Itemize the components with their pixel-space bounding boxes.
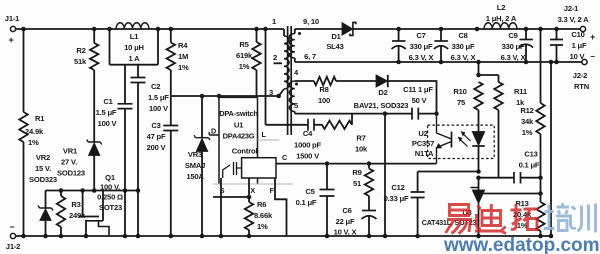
svg-text:1%: 1% [28,138,39,147]
svg-text:24.9k: 24.9k [25,127,44,136]
node U1 corner [217,94,222,99]
svg-text:DPA-switch: DPA-switch [219,109,258,118]
svg-text:15 V.: 15 V. [35,164,51,173]
node VR3 top [200,94,205,99]
wire filter branch right [157,29,159,65]
wire R10 R11 bridge [479,74,499,76]
svg-text:1500 V: 1500 V [296,152,320,161]
wire R2 to VR1 [93,70,95,142]
wire pin2 stub [274,62,282,64]
node R10 top [476,73,481,78]
svg-text:L1: L1 [130,32,139,41]
svg-text:330 μF: 330 μF [410,42,433,51]
transformer bias winding 4-5 [289,81,294,111]
node bias return branch [383,111,388,116]
node C7 top [396,27,401,32]
svg-text:200 V: 200 V [147,143,167,152]
svg-text:1%: 1% [522,128,533,137]
wire gate node [46,190,139,192]
node U3 anode on rail [476,234,481,239]
svg-text:C: C [282,153,287,162]
svg-text:R1: R1 [35,114,45,123]
transformer primary winding 1-2-3 [284,36,289,89]
svg-text:5: 5 [294,101,299,110]
resistor R13 [536,202,544,231]
svg-text:100: 100 [318,96,330,105]
svg-text:J2-2: J2-2 [573,71,587,80]
watermark char xun [571,204,596,233]
wire R7 to bias return [351,114,353,125]
node R5 top on rail [254,27,259,32]
svg-text:4: 4 [294,68,299,77]
wire R4 bottom to node D wire [170,70,172,96]
node C9 top [524,27,529,32]
node C12 bottom on rail [415,234,420,239]
svg-text:SL43: SL43 [326,42,343,51]
resistor R12 [536,103,544,134]
svg-text:C9: C9 [508,31,517,40]
op-amp U2 PC357 dashed box [428,125,495,158]
resistor R7 [322,121,352,129]
svg-text:2: 2 [273,53,277,62]
terminal J2-1 [580,26,585,31]
node R1 bottom on rail [21,234,26,239]
diode D2 [376,75,388,87]
svg-text:R4: R4 [178,41,188,50]
U1 control block box [242,158,276,178]
watermark char pei [544,205,555,229]
wire Q1 drain lead [102,191,104,221]
node X R6 junction [247,195,252,200]
inductor L1 [116,23,149,29]
wire snubber vertical [265,29,267,125]
node C8 bottom on return [439,60,444,65]
svg-text:8.66k: 8.66k [254,211,273,220]
node reference on divider [538,191,543,196]
node C9 bottom on return [524,60,529,65]
svg-text:C2: C2 [151,82,160,91]
terminal J1-1 [10,26,15,31]
node C10 bottom on return [554,60,559,65]
capacitor C8 [440,29,442,41]
wire C1 top lead [124,65,126,104]
node R4 top on rail [169,27,174,32]
svg-text:L2: L2 [497,3,505,12]
transient suppressor VR3 [201,96,203,138]
wire C13 branch [479,177,515,179]
svg-text:47 pF: 47 pF [147,132,166,141]
svg-text:1M: 1M [178,52,188,61]
node VR1 anode [92,188,97,193]
watermark char yi [450,205,469,216]
svg-text:10 V, X: 10 V, X [334,228,357,237]
svg-text:C3: C3 [151,121,160,130]
capacitor C7 [398,29,400,41]
wire R11 bottom lead [498,110,500,178]
svg-text:C13: C13 [524,150,537,159]
node C1 bottom on rail [123,234,128,239]
svg-text:−: − [9,222,14,232]
node R3 bottom on rail [59,234,64,239]
svg-text:C7: C7 [416,31,425,40]
svg-text:R9: R9 [352,168,361,177]
wire LED anode lead [478,110,480,132]
svg-text:www.edatop.com: www.edatop.com [443,235,600,254]
wire bottom rail [16,235,551,237]
resistor R1 [19,112,27,142]
diode D1 [342,23,353,36]
node C5 bottom on rail [325,234,330,239]
wire C3 top lead [170,96,172,126]
wire secondary top rail [295,28,581,30]
svg-text:1000 pF: 1000 pF [294,141,321,150]
svg-text:C11 1 μF: C11 1 μF [403,85,433,94]
capacitor C10 [556,29,558,40]
wire R2 top lead [93,29,95,43]
svg-text:BAV21, SOD323: BAV21, SOD323 [354,101,409,110]
wire ground link right [550,62,552,236]
capacitor C6 [362,210,376,212]
node C1 branch [123,188,128,193]
svg-text:U1: U1 [234,121,244,130]
svg-text:−: − [590,52,595,61]
svg-text:C4: C4 [303,129,313,138]
svg-text:0.1 μF: 0.1 μF [296,198,317,207]
svg-text:PC357: PC357 [412,139,434,148]
wire C2 top lead [137,65,139,78]
wire VR3 anode lead [201,152,203,237]
node R6 bottom on rail [247,234,252,239]
svg-text:U2: U2 [418,129,427,138]
svg-text:619k: 619k [236,51,253,60]
svg-text:F: F [270,186,275,195]
capacitor C2 [131,78,146,83]
resistor R3 [60,191,62,197]
svg-text:R7: R7 [356,134,365,143]
svg-text:C8: C8 [458,31,467,40]
capacitor C5 [326,164,328,190]
capacitor C12 [411,192,425,198]
node C10 top [554,27,559,32]
node C11 right [434,111,439,116]
resistor R6 [245,202,253,230]
svg-text:J2-1: J2-1 [564,4,579,13]
capacitor C1 [118,104,133,109]
wire bias return to ground [384,114,386,236]
svg-text:1.5 μF: 1.5 μF [96,108,117,117]
wire pin1 lead down into transformer [283,29,285,36]
pin C wire [276,163,437,165]
svg-text:1 A: 1 A [129,54,141,63]
node VR2 anode on rail [43,234,48,239]
svg-text:75: 75 [457,98,466,107]
resistor R8 [314,77,336,85]
svg-text:Q1: Q1 [105,173,116,182]
svg-text:R10: R10 [453,87,466,96]
svg-text:27 V.: 27 V. [61,158,77,167]
svg-text:0.1 μF: 0.1 μF [519,161,540,170]
svg-text:C5: C5 [305,187,315,196]
svg-text:6, 7: 6, 7 [304,52,316,61]
svg-text:34k: 34k [521,117,534,126]
svg-text:1 μF: 1 μF [572,41,587,50]
svg-text:1%: 1% [178,63,189,72]
resistor R5 [256,29,258,42]
svg-text:330 μF: 330 μF [452,42,475,51]
resistor R2 [90,43,98,70]
wire secondary top lead [294,29,296,34]
svg-text:10k: 10k [355,145,368,154]
wire R8 to D2 [336,80,376,82]
node R13 bottom on rail [538,234,543,239]
wire top rail primary [16,28,284,30]
node C7 bottom on return [396,60,401,65]
svg-text:N1TA: N1TA [415,149,434,158]
terminal J1-2 [10,233,15,238]
svg-text:Control: Control [232,147,258,156]
pin L line [258,139,280,141]
wire C3 bottom lead [170,131,172,237]
svg-text:100 V: 100 V [98,119,118,128]
node R2 top on rail [92,27,97,32]
node C13 wire left [476,175,481,180]
svg-text:R8: R8 [319,85,328,94]
wire U3 reference [483,193,541,195]
wire VR1 anode lead [93,156,95,191]
svg-text:100 V.: 100 V. [100,183,120,192]
node pin3 [276,94,281,99]
node R12 top on rail [538,27,543,32]
svg-text:C1: C1 [103,97,113,106]
svg-text:51: 51 [353,179,362,188]
svg-text:1: 1 [272,17,277,26]
svg-text:+: + [590,32,595,42]
transformer secondary winding 9,10-6,7 [289,34,294,58]
wire R1 top lead [23,29,25,112]
svg-text:R5: R5 [239,40,249,49]
svg-text:330 μF: 330 μF [502,42,525,51]
svg-text:1%: 1% [239,62,250,71]
svg-text:S: S [220,186,225,195]
svg-text:C6: C6 [342,206,351,215]
pin X wire [248,178,250,197]
svg-text:L: L [262,130,267,139]
pin S wire [220,178,222,236]
wire D2 cathode to corner [388,81,437,114]
svg-text:22 μF: 22 μF [336,217,355,226]
svg-text:X: X [250,186,255,195]
svg-text:6.3 V, X: 6.3 V, X [501,53,526,62]
wire C2 bottom lead [137,83,139,237]
svg-text:1.5 μF: 1.5 μF [148,93,169,102]
resistor R4 [167,43,175,71]
svg-text:3.3 V, 2 A: 3.3 V, 2 A [558,15,590,24]
node bias polarity dot [295,83,298,86]
resistor R11 [498,75,500,82]
svg-text:R12: R12 [520,106,533,115]
svg-text:6.3 V, X: 6.3 V, X [409,53,434,62]
inductor L2 [484,23,517,29]
wire R9 to C6 [368,196,370,211]
svg-text:C12: C12 [391,183,404,192]
op-amp U3 CAT431 [478,178,480,190]
node C2 bottom on rail [136,234,141,239]
U1 internal mosfet [223,162,242,178]
node VR3 bottom on rail [200,234,205,239]
capacitor C4 [308,119,314,131]
node C8 top [439,27,444,32]
node snubber top on rail [263,27,268,32]
watermark char tuo [511,204,522,229]
wire R1 bottom lead [23,142,25,236]
svg-text:R6: R6 [257,200,266,209]
node bias return on rail [383,234,388,239]
svg-text:C10: C10 [571,30,584,39]
svg-text:9, 10: 9, 10 [303,17,319,26]
wire bias bottom lead [294,112,296,114]
node C2 branch [136,188,141,193]
wire bias top lead [295,80,314,82]
node C13 right on divider [538,175,543,180]
wire drain node [171,95,279,97]
svg-text:RTN: RTN [574,82,589,91]
watermark char di [482,204,501,226]
resistor R9 [368,164,370,169]
node Q1 gate [80,188,85,193]
wire filter branch bottom [110,64,159,66]
wire X to S [213,196,249,198]
svg-text:D1: D1 [331,32,341,41]
capacitor C13 [514,172,521,184]
svg-text:R2: R2 [76,46,85,55]
node J1-1 junction [21,27,26,32]
wire filter branch left [109,29,111,65]
svg-text:10 μH: 10 μH [124,43,144,52]
svg-text:0.33 μF: 0.33 μF [384,194,409,203]
light arrows [460,133,471,146]
wire bias return [295,113,412,115]
wire C1 bottom lead [124,109,126,236]
node LED cathode C12 wire [476,169,481,174]
svg-text:VR2: VR2 [36,153,50,162]
capacitor C9 [525,29,527,40]
diode U2 LED [472,132,485,146]
svg-text:50 V: 50 V [412,96,428,105]
wire snubber horizontal [266,124,309,126]
node R9 top [367,161,372,166]
node C5 top [325,161,330,166]
wire secondary bottom lead [294,58,296,62]
svg-text:1 μH, 2 A: 1 μH, 2 A [486,14,517,23]
capacitor C3 [163,126,178,131]
node feedback branch on return [476,60,481,65]
node C6 bottom on rail [367,234,372,239]
capacitor C11 [412,108,418,120]
svg-text:R3: R3 [71,200,80,209]
wire R12 bottom lead [540,134,542,178]
svg-text:1%: 1% [257,222,268,231]
svg-text:VR1: VR1 [63,147,78,156]
pin F wire [275,178,287,236]
terminal J2-2 [582,59,587,64]
wire R5 bottom lead [256,70,258,97]
wire return rail [295,61,582,63]
svg-text:3: 3 [269,88,273,97]
svg-text:D: D [211,127,216,136]
svg-text:J1-1: J1-1 [5,14,20,23]
node L1 right on rail [156,27,161,32]
transistor U2 phototransistor [437,114,452,139]
node R3 top [59,188,64,193]
svg-text:SOD123: SOD123 [57,169,85,178]
wire divider middle [540,178,542,202]
svg-text:0.250 Ω: 0.250 Ω [97,193,123,202]
svg-text:100 V: 100 V [149,104,169,113]
svg-text:R11: R11 [514,87,528,96]
node L1 left on rail [107,27,112,32]
resistor R10 [474,82,482,110]
svg-text:DPA423G: DPA423G [223,132,255,141]
svg-text:SOD323: SOD323 [29,175,57,184]
pin D stub [209,132,219,135]
svg-text:+: + [8,35,13,45]
node C3 bottom on rail [169,234,174,239]
svg-text:J1-2: J1-2 [6,242,20,251]
op-amp U1 DPA423G box [219,97,258,184]
wire R12 top lead [540,29,542,103]
wire C12 branch [418,171,479,173]
node L2 left on rail [475,27,480,32]
transformer core [288,26,292,135]
node secondary polarity dot [298,32,301,35]
svg-text:51k: 51k [74,57,87,66]
svg-text:6.3 V, X: 6.3 V, X [451,53,476,62]
svg-text:D2: D2 [378,88,387,97]
wire R4 top lead [170,29,172,43]
svg-text:VR3: VR3 [188,150,202,159]
